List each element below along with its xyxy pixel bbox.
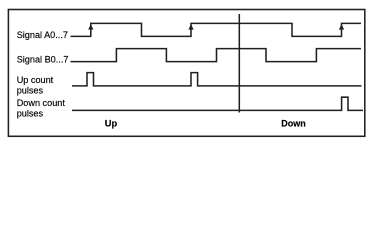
arrow on Signal A rising edge 3 bbox=[339, 24, 344, 30]
svg-text:Up count: Up count bbox=[17, 75, 54, 85]
svg-text:pulses: pulses bbox=[17, 85, 44, 95]
waveform Down count pulses trace bbox=[72, 97, 363, 110]
svg-text:Down: Down bbox=[281, 118, 306, 128]
svg-text:pulses: pulses bbox=[17, 108, 44, 118]
waveform Up count pulses trace bbox=[72, 73, 362, 86]
svg-text:Up: Up bbox=[105, 118, 118, 128]
divider between Up and Down sections bbox=[238, 14, 240, 113]
waveform Signal A trace bbox=[71, 23, 362, 36]
svg-text:Signal B0...7: Signal B0...7 bbox=[17, 55, 69, 65]
arrow on Signal A rising edge 1 bbox=[88, 24, 93, 30]
svg-text:Down count: Down count bbox=[17, 98, 66, 108]
svg-text:Signal A0...7: Signal A0...7 bbox=[17, 30, 68, 40]
frame border bbox=[8, 10, 364, 137]
arrow on Signal A rising edge 2 bbox=[188, 24, 193, 30]
waveform Signal B trace bbox=[71, 49, 362, 62]
